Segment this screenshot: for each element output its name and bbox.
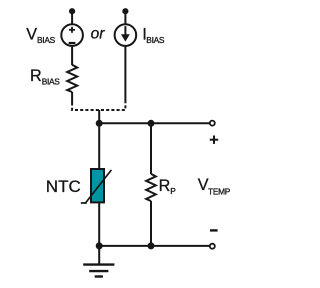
ground stem <box>98 246 100 265</box>
dashed connection bracket <box>72 103 125 111</box>
wire I_BIAS to dashed bracket <box>124 46 126 103</box>
svg-text:VBIAS: VBIAS <box>26 25 55 45</box>
svg-text:NTC: NTC <box>46 177 81 196</box>
svg-text:IBIAS: IBIAS <box>142 25 164 45</box>
svg-text:or: or <box>91 26 106 43</box>
minus terminal label <box>210 229 218 231</box>
bottom horizontal wire <box>99 245 210 247</box>
ground bar 1 <box>83 263 114 265</box>
open terminal + <box>210 121 215 126</box>
resistor R_BIAS zigzag <box>67 65 77 92</box>
minus sign inside source <box>69 42 76 44</box>
ground bar 3 <box>95 275 103 277</box>
junction node bottom R_P <box>148 242 155 249</box>
svg-text:VTEMP: VTEMP <box>198 176 231 196</box>
wire V_BIAS to R_BIAS <box>71 46 73 65</box>
open terminal - <box>210 244 215 249</box>
NTC thermistor body <box>91 169 104 202</box>
plus sign inside source <box>69 27 75 33</box>
wire from dashed bracket to top node <box>98 110 100 123</box>
top horizontal wire <box>99 122 210 124</box>
svg-text:RBIAS: RBIAS <box>30 67 60 86</box>
NTC branch wire <box>98 123 100 246</box>
wire R_BIAS bottom <box>71 92 73 103</box>
NTC diagonal stroke <box>81 170 112 204</box>
arrow inside current source <box>124 26 126 36</box>
wire R_P bottom <box>150 201 152 246</box>
wire stub to I_BIAS top <box>124 11 126 24</box>
junction node top R_P <box>148 120 155 127</box>
node dot above current source <box>122 8 128 14</box>
resistor R_P zigzag <box>146 174 156 201</box>
node dot above voltage source <box>69 8 75 14</box>
wire stub to V_BIAS top <box>71 11 73 24</box>
junction node top-left <box>96 120 103 127</box>
svg-text:RP: RP <box>159 177 177 196</box>
plus terminal label <box>210 136 218 144</box>
R_P branch wire <box>150 123 152 174</box>
junction node bottom-left <box>96 242 103 249</box>
ground bar 2 <box>89 270 108 272</box>
voltage source V_BIAS circle <box>61 24 83 46</box>
current source I_BIAS circle <box>115 24 137 46</box>
